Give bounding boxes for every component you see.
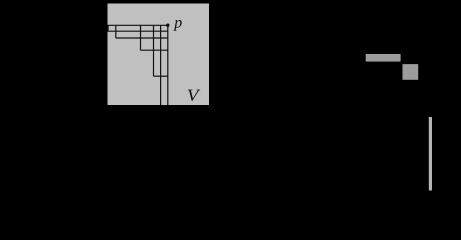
node p (dot) <box>166 24 169 27</box>
label V <box>188 90 200 101</box>
wire rectangle R5 left edge <box>160 25 162 105</box>
wire rectangle R1 left edge <box>107 25 109 31</box>
set V (gray square) <box>108 4 210 106</box>
wire rectangle R2 left edge <box>115 25 117 38</box>
wire rectangle R4 bottom <box>154 75 168 77</box>
wire rectangle R3 bottom <box>141 49 168 51</box>
wire top edge of nested rectangles <box>108 24 168 26</box>
wire rectangle R1 bottom <box>108 30 168 32</box>
wire vertical through p <box>167 25 169 105</box>
right figure: square rectangle <box>403 64 419 80</box>
wire rectangle R4 left edge <box>153 25 155 76</box>
wire rectangle R3 left edge <box>140 25 142 50</box>
right figure: wide rectangle <box>366 54 401 62</box>
right figure: tall thin rectangle <box>429 117 432 191</box>
label p <box>173 20 181 31</box>
wire rectangle R2 bottom <box>116 37 168 39</box>
